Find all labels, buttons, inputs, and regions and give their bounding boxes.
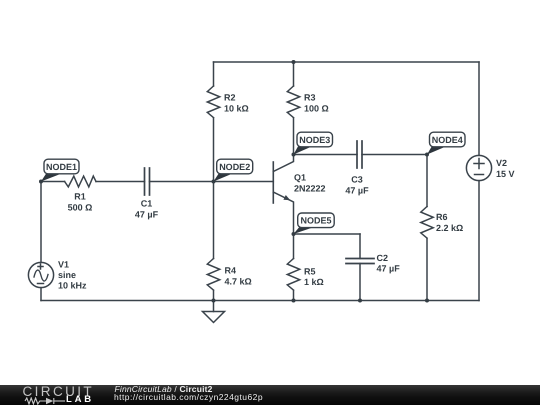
svg-text:47 µF: 47 µF bbox=[135, 210, 159, 220]
svg-text:R5: R5 bbox=[304, 266, 316, 276]
svg-text:47 µF: 47 µF bbox=[345, 185, 369, 195]
svg-text:V2: V2 bbox=[496, 158, 507, 168]
svg-text:R1: R1 bbox=[74, 192, 86, 202]
svg-text:NODE4: NODE4 bbox=[432, 135, 463, 145]
svg-text:NODE2: NODE2 bbox=[219, 162, 250, 172]
svg-text:R2: R2 bbox=[224, 93, 236, 103]
svg-text:1 kΩ: 1 kΩ bbox=[304, 277, 324, 287]
svg-text:C3: C3 bbox=[351, 175, 363, 185]
svg-text:R4: R4 bbox=[225, 266, 237, 276]
svg-text:500 Ω: 500 Ω bbox=[68, 203, 93, 213]
svg-text:2N2222: 2N2222 bbox=[294, 184, 326, 194]
svg-text:Q1: Q1 bbox=[294, 172, 306, 182]
svg-text:C2: C2 bbox=[377, 253, 389, 263]
svg-text:10 kΩ: 10 kΩ bbox=[224, 104, 249, 114]
svg-text:NODE1: NODE1 bbox=[46, 162, 77, 172]
svg-text:R3: R3 bbox=[304, 93, 316, 103]
svg-text:sine: sine bbox=[58, 270, 76, 280]
svg-text:15 V: 15 V bbox=[496, 169, 515, 179]
svg-text:47 µF: 47 µF bbox=[377, 264, 401, 274]
svg-text:100 Ω: 100 Ω bbox=[304, 104, 329, 114]
svg-text:2.2 kΩ: 2.2 kΩ bbox=[436, 223, 463, 233]
svg-text:4.7 kΩ: 4.7 kΩ bbox=[225, 277, 252, 287]
svg-text:NODE5: NODE5 bbox=[300, 216, 331, 226]
svg-text:V1: V1 bbox=[58, 260, 69, 270]
svg-text:10 kHz: 10 kHz bbox=[58, 281, 87, 291]
svg-text:R6: R6 bbox=[436, 212, 448, 222]
svg-text:C1: C1 bbox=[141, 199, 153, 209]
svg-text:NODE3: NODE3 bbox=[299, 135, 330, 145]
